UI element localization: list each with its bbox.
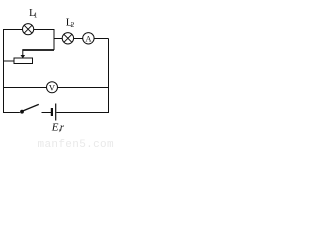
svg-text:A: A <box>85 34 92 44</box>
svg-text:V: V <box>49 83 56 93</box>
svg-text:2: 2 <box>71 20 75 29</box>
svg-text:manfen5.com: manfen5.com <box>38 139 115 149</box>
svg-text:r: r <box>60 122 65 134</box>
svg-text:1: 1 <box>34 11 38 20</box>
